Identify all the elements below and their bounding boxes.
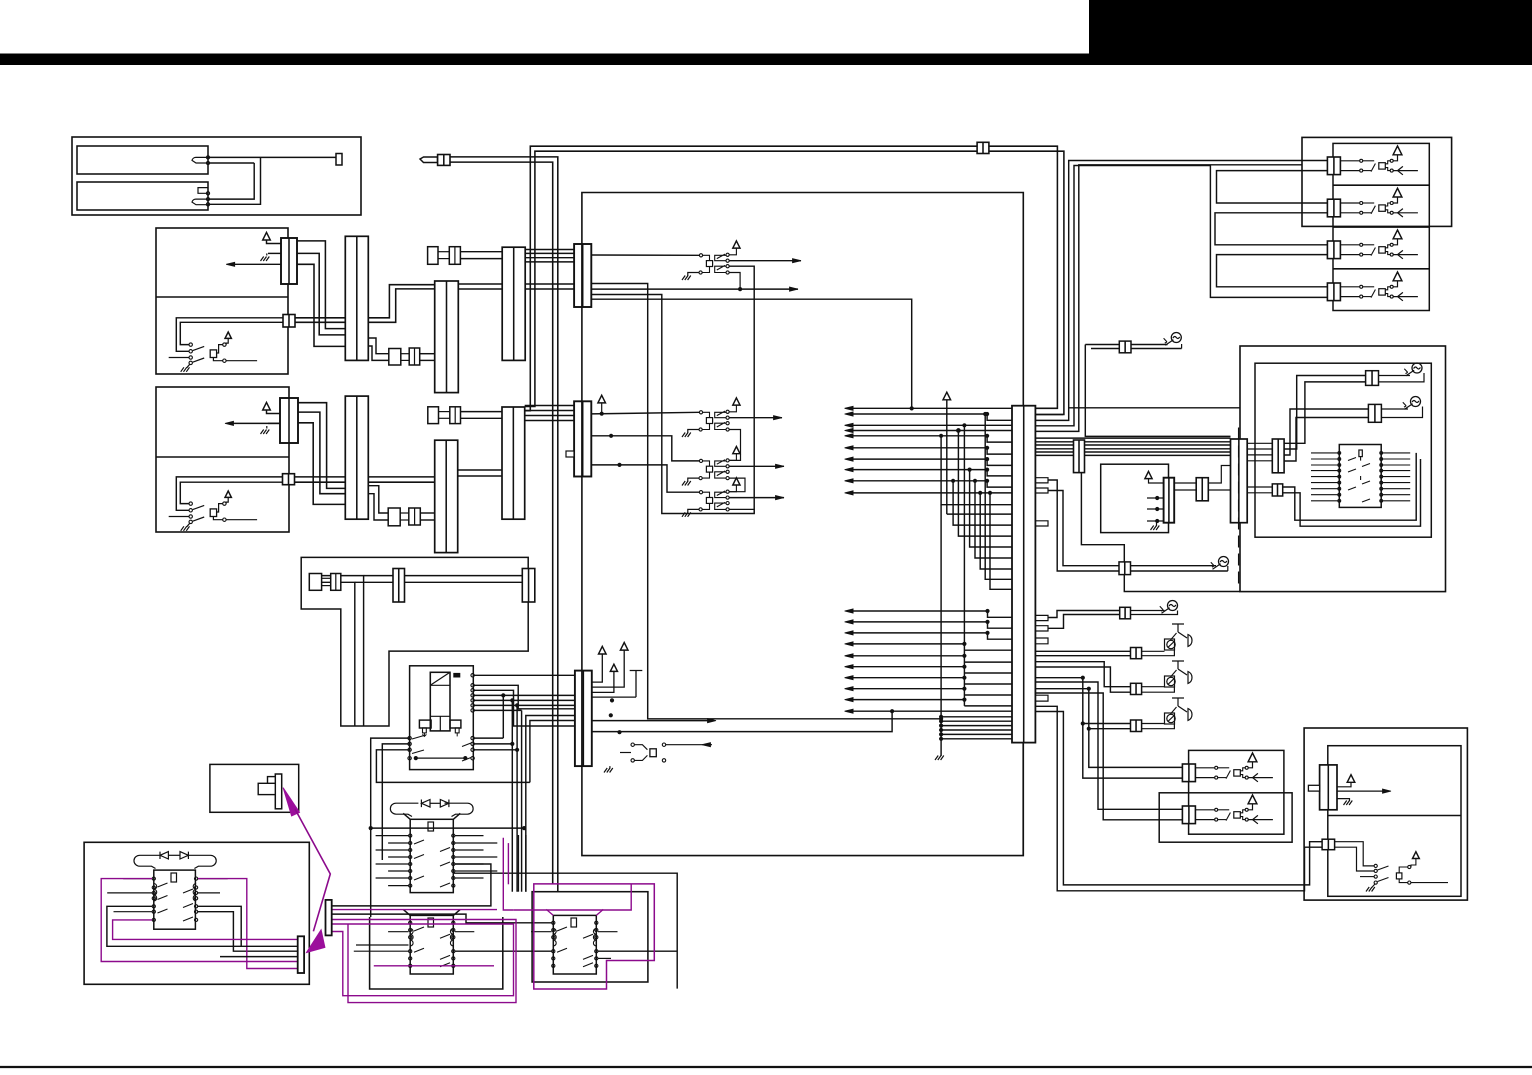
switch SW2 — [189, 502, 192, 505]
opto unit T3 — [1327, 241, 1340, 259]
wire pin6 — [114, 911, 153, 913]
connector CN5 tall B — [345, 396, 368, 519]
triangle E8 — [599, 646, 607, 654]
top cable connector CN10 — [977, 142, 989, 153]
ground G7 — [609, 766, 611, 768]
relay R2 right wires — [455, 835, 484, 837]
sensor symbol S1 — [1171, 333, 1181, 343]
sensor unit cells — [1333, 143, 1429, 310]
wire panel top — [1069, 407, 1240, 409]
arrow W1 — [233, 263, 281, 265]
wires R1 left down — [371, 738, 410, 917]
ground G8 — [940, 739, 942, 756]
long wire lower — [331, 864, 491, 906]
plug P2 — [388, 508, 400, 526]
purple pin7 — [113, 920, 298, 940]
relay R1 contacts — [412, 736, 471, 762]
wire CN16 stem — [1081, 473, 1124, 562]
relay R1 pins right — [471, 674, 474, 677]
sensor S3 — [1048, 611, 1120, 618]
wire pair hook2 — [176, 477, 282, 510]
inner bar 2 — [77, 182, 208, 210]
T-bar — [630, 671, 643, 698]
wire CN8 down to bus — [591, 284, 941, 719]
terminator — [336, 154, 342, 166]
relay R4 box — [532, 892, 648, 982]
relay R1 mark — [454, 673, 460, 677]
black pin wire — [220, 956, 298, 958]
ground G3 — [688, 273, 699, 277]
box handset — [1304, 728, 1467, 900]
cable duct outline — [301, 557, 528, 726]
box main PCB — [582, 193, 1023, 856]
triangle E13 — [1347, 775, 1355, 783]
bell sensor B1 — [1172, 624, 1187, 638]
ground G5 — [688, 478, 699, 481]
title bar — [0, 54, 1532, 66]
wire pair to CN5B — [295, 476, 436, 478]
wires P3 to CN7A — [460, 251, 502, 253]
connector CN7 tall A — [502, 247, 525, 360]
feeder opto L1 — [1083, 724, 1183, 779]
wire bundle down right — [523, 827, 525, 829]
relay R4 coil loops — [553, 929, 596, 946]
relay R3 — [410, 915, 453, 974]
hook contact 1 — [192, 157, 208, 163]
CN14 bottom edge wire — [1022, 743, 1024, 856]
ground G4 — [688, 430, 699, 434]
wires CN21 to CN23 — [1284, 409, 1368, 455]
purple loop bottom A — [331, 924, 513, 996]
box opto L2 — [1159, 793, 1292, 842]
diode pair RL — [160, 852, 188, 859]
opto U-C — [591, 436, 699, 461]
feeder opto L2 — [1035, 682, 1182, 809]
centreline dash — [1238, 428, 1240, 588]
ground G1 — [261, 257, 270, 262]
box relay R1 — [410, 666, 474, 770]
relay R3 coil loops — [410, 929, 453, 946]
sensor symbol S6 — [1411, 397, 1421, 407]
purple vert R2b — [507, 843, 509, 884]
wires CN1 right staircase — [297, 241, 345, 329]
opto unit T1 — [1327, 157, 1340, 175]
bus vertical x964 — [962, 423, 966, 427]
purple arrow 1 — [283, 788, 299, 816]
daisy D loop — [729, 509, 754, 513]
opto U-B — [699, 411, 702, 414]
wire CN16 down — [1124, 575, 1240, 592]
bus lower comb — [939, 715, 943, 719]
bus wires lower — [849, 610, 988, 612]
relay R4 wires — [531, 931, 552, 933]
daisy C to D — [729, 478, 745, 492]
triangle E1 — [263, 232, 271, 240]
jog wires CN5A to plug — [368, 338, 389, 354]
wires CN11 left lower — [526, 716, 575, 892]
connector CN25 — [1196, 478, 1208, 501]
connector CN21 — [1272, 439, 1284, 473]
connector CN12 — [393, 569, 405, 603]
ground G2 — [261, 430, 270, 435]
sensor S1 — [1085, 345, 1230, 437]
wire pair to CN5A — [295, 285, 435, 318]
connector CN8 — [574, 244, 591, 307]
box service plug — [210, 764, 299, 812]
bell sensor B2 — [1172, 661, 1187, 675]
connector CN24 — [1164, 478, 1175, 523]
hook pins — [1155, 496, 1159, 500]
box handset inner — [1328, 746, 1461, 897]
connector CN11 — [575, 671, 592, 767]
relay R2 top wire — [371, 827, 525, 829]
arrow bus A2 — [591, 288, 798, 290]
switch SW4 wires — [1335, 842, 1374, 866]
connector CN2 small — [283, 315, 295, 328]
ground G6 — [688, 509, 699, 512]
triangle E12 — [1145, 471, 1152, 478]
connector CN22 — [1366, 371, 1379, 386]
cable duct inner pair — [322, 576, 364, 726]
bell sensor B3 — [1172, 698, 1187, 712]
box sensor bank outer — [1302, 137, 1452, 226]
arrow bus A1 — [729, 260, 801, 262]
switch SW1 — [189, 343, 192, 346]
wires CN6A to CN8 — [458, 283, 574, 285]
plug P4 — [428, 407, 439, 424]
loop pin5 — [107, 906, 241, 946]
box opto L1 — [1189, 750, 1284, 834]
title block top right — [1089, 0, 1532, 65]
relay R2 snubber — [390, 803, 473, 816]
keypad loop wires — [1283, 453, 1417, 520]
wires CN3 staircase — [298, 403, 345, 489]
wires CN7B to CN9 — [525, 405, 574, 407]
relay R4 wings purple — [546, 909, 603, 915]
purple wire CNB — [331, 909, 497, 911]
antenna pair down — [450, 157, 558, 892]
triangle E9 — [620, 643, 628, 651]
connector CN6 tall A — [435, 281, 459, 393]
connector CN5 tall A — [345, 236, 368, 360]
connector CN3 — [280, 398, 298, 443]
connector CN9 — [574, 401, 591, 476]
wires P4 to CN7B — [461, 411, 503, 413]
purple under R3 — [374, 965, 494, 967]
box panel inner — [1255, 363, 1431, 537]
connector CNB — [326, 900, 332, 936]
arrow bus C — [729, 465, 784, 467]
wire pair hook1 — [176, 318, 283, 352]
box hook unit 2 — [156, 387, 289, 532]
connector CN15 inline — [1074, 440, 1085, 473]
sensor S2 feeder pair — [1048, 480, 1119, 571]
wire W20 — [1068, 419, 1070, 421]
box hook left — [1101, 464, 1169, 532]
wires P2 to CN6B — [420, 512, 435, 514]
connector CN19 — [1131, 720, 1142, 732]
wires CN24 CN25 — [1174, 482, 1196, 484]
connector CNA — [298, 936, 304, 973]
antenna pair ends — [557, 891, 559, 893]
purple arrow 2 — [307, 930, 325, 953]
wires CN21 up to CN22 — [1284, 382, 1366, 443]
connector CN17 — [1131, 648, 1142, 659]
wires CN7A to CN8 — [525, 249, 574, 251]
relay RL snubber — [134, 855, 216, 868]
purple link R2 — [503, 838, 513, 910]
wires R1 to CN11 — [474, 674, 575, 676]
connector CN20 tall — [1231, 439, 1248, 523]
bus vertical main — [940, 505, 942, 739]
connector CN27 — [1322, 839, 1335, 850]
switch SW3 — [631, 743, 634, 746]
wire CN9 to optoB — [591, 412, 699, 414]
wire pair to terminator — [208, 156, 336, 158]
service plug symbol — [275, 774, 281, 809]
connector CN26 — [1320, 765, 1337, 810]
wires CN25 to CN20 — [1208, 466, 1230, 484]
plug P1 — [389, 349, 401, 366]
bottom rule — [0, 1066, 1532, 1068]
box scanner unit — [72, 137, 361, 215]
purple loop bottom B — [331, 920, 516, 1003]
antenna plug — [420, 157, 438, 163]
daisy U links — [1217, 171, 1328, 203]
relay R2 left wires — [376, 835, 409, 837]
wires R1 lower links — [502, 695, 504, 738]
CN14 right stubs — [1035, 478, 1048, 483]
wire CN11 junction — [592, 711, 892, 731]
wire R4 link — [331, 914, 551, 923]
wires CN6B to CN7B — [458, 469, 502, 471]
box power unit — [84, 842, 309, 984]
box hook unit 1 — [156, 228, 288, 374]
ground G9 — [1156, 523, 1158, 526]
triangle E2 — [263, 402, 271, 410]
wires P1 to CN6A — [420, 353, 435, 355]
bus wires upper — [849, 407, 1012, 409]
wire CN8 to optoA — [591, 254, 699, 256]
connector CN4 small — [283, 474, 295, 485]
wires CN14 to CN15 — [1035, 437, 1230, 439]
arrow W2 — [232, 422, 280, 424]
opto unit T2 — [1327, 199, 1340, 217]
wire links down — [208, 163, 254, 199]
hook contact 2 — [192, 199, 208, 205]
sensor symbol S2 — [1219, 557, 1229, 567]
connector CN18 — [1131, 683, 1142, 694]
wires CNB left — [304, 939, 360, 941]
opto U-D — [591, 465, 699, 492]
keypad matrix — [1339, 445, 1381, 508]
wire duct verticals — [647, 283, 649, 285]
purple frame R4 — [534, 884, 655, 989]
wires CN20 to CN21 — [1247, 442, 1272, 444]
box operation panel — [1240, 346, 1446, 592]
purple arrow line — [295, 809, 330, 931]
daisy B to C — [729, 430, 740, 461]
purple coil wires — [101, 879, 298, 962]
panel internal wires — [1304, 381, 1306, 383]
opto U-A — [699, 254, 702, 257]
bus staircase verticals — [946, 400, 948, 514]
connector CN23 — [1368, 404, 1381, 422]
relay R1 coil — [430, 672, 450, 731]
wire CN8 long right — [591, 299, 911, 408]
top loop wires from CN7B — [525, 151, 1064, 414]
long wire R3 — [354, 950, 409, 952]
relay RL coil loops — [154, 884, 196, 901]
sensor S1 wire — [1035, 346, 1085, 348]
wire to sensor S1 upper — [1035, 407, 1057, 409]
connector CN7 tall B — [502, 407, 525, 519]
triangle E11 — [943, 392, 951, 400]
opto unit L2 — [1182, 806, 1195, 824]
connector CN14 main — [1012, 406, 1035, 743]
ground G10 — [1337, 799, 1350, 801]
relay RL — [154, 870, 196, 929]
wire into panel — [1068, 408, 1070, 421]
arrow bus B — [729, 417, 782, 419]
relay R3 wires — [388, 931, 408, 933]
diode pair R2 — [421, 800, 449, 808]
opto unit L1 — [1182, 764, 1195, 782]
plug P3 — [428, 247, 438, 265]
connector CN16 — [1119, 562, 1131, 575]
opto unit T4 — [1327, 283, 1340, 301]
relay R2 — [410, 819, 453, 892]
arrow W3 — [592, 720, 712, 722]
connector CN28 — [1272, 484, 1282, 496]
panel wiring left — [1065, 407, 1067, 409]
triangle E10 — [610, 664, 617, 671]
wire pair sensor S4 — [1035, 706, 1322, 891]
relay R4 — [553, 915, 596, 974]
connector CN1 — [281, 238, 297, 284]
plug P5 — [309, 574, 321, 591]
sensor symbol S5 — [1412, 363, 1422, 373]
arrow bus D — [729, 497, 784, 499]
relay RL wires — [123, 878, 152, 880]
wire from CN14 into panel — [1068, 419, 1070, 421]
relay R1 pins lower — [408, 736, 411, 739]
inner bar 1 — [77, 146, 208, 174]
connector CN13 — [522, 569, 535, 603]
switch SW4 — [1374, 864, 1377, 867]
arrow W21 — [1337, 790, 1387, 792]
wire top feed — [1034, 419, 1036, 421]
loop wire optoA — [591, 266, 754, 513]
triangle E4 — [598, 395, 606, 403]
jog wires CN5B to plug2 — [368, 486, 388, 513]
relay R3 box — [370, 917, 503, 989]
connector CN6 tall B — [435, 440, 458, 552]
